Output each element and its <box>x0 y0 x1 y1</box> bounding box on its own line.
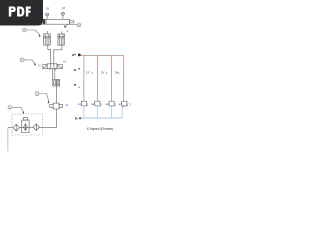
svg-text:): ) <box>115 103 116 107</box>
svg-text:a4: a4 <box>119 102 123 106</box>
svg-text:a1: a1 <box>78 102 82 106</box>
svg-text:1: 1 <box>106 71 108 75</box>
svg-text:): ) <box>100 103 101 107</box>
svg-text:a3: a3 <box>106 102 110 106</box>
svg-text:1B: 1B <box>46 7 49 10</box>
svg-text:1: 1 <box>91 71 93 75</box>
svg-text:2Y: 2Y <box>101 71 105 75</box>
svg-text:a+: a+ <box>72 53 76 57</box>
svg-text:1V: 1V <box>63 60 66 63</box>
svg-text:( ): ( ) <box>127 103 130 107</box>
svg-text:1Y: 1Y <box>86 71 90 75</box>
svg-text:IO Segment (8 Elements): IO Segment (8 Elements) <box>87 127 114 131</box>
svg-text:a2: a2 <box>91 102 95 106</box>
svg-text:1: 1 <box>118 71 120 75</box>
svg-text:a-: a- <box>74 68 77 72</box>
svg-text:1B: 1B <box>62 7 65 10</box>
svg-text:a: a <box>78 85 80 89</box>
svg-text:b-: b- <box>75 117 78 121</box>
svg-text:1V: 1V <box>38 64 41 67</box>
svg-text:): ) <box>87 103 88 107</box>
